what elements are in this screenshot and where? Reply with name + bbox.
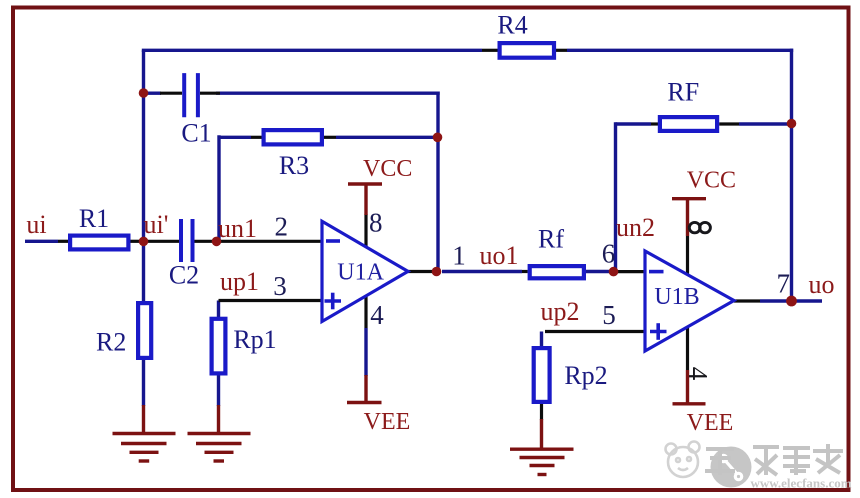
svg-text:7: 7 (777, 269, 791, 299)
svg-text:4: 4 (683, 367, 713, 381)
svg-text:Rf: Rf (538, 225, 564, 254)
svg-text:up1: up1 (220, 267, 259, 296)
svg-text:VEE: VEE (364, 409, 411, 435)
svg-text:uo: uo (809, 270, 835, 299)
svg-text:8: 8 (369, 208, 383, 238)
svg-text:up2: up2 (541, 297, 580, 326)
svg-text:2: 2 (275, 212, 289, 242)
svg-text:VCC: VCC (687, 167, 736, 193)
svg-text:1: 1 (452, 241, 466, 271)
svg-text:R4: R4 (497, 11, 527, 40)
svg-text:U1B: U1B (654, 284, 699, 310)
svg-text:un1: un1 (218, 214, 257, 243)
svg-text:www.elecfans.com: www.elecfans.com (750, 476, 851, 491)
svg-text:3: 3 (273, 271, 287, 301)
svg-text:R1: R1 (79, 204, 109, 233)
svg-text:ui': ui' (144, 210, 169, 239)
svg-text:un2: un2 (616, 213, 655, 242)
svg-text:6: 6 (602, 239, 616, 269)
svg-text:C2: C2 (169, 261, 199, 290)
svg-text:RF: RF (667, 78, 699, 107)
svg-text:5: 5 (602, 300, 616, 330)
svg-text:Rp2: Rp2 (564, 361, 607, 390)
svg-text:R2: R2 (96, 328, 126, 357)
svg-text:U1A: U1A (337, 260, 384, 286)
svg-text:VCC: VCC (363, 156, 412, 182)
svg-text:4: 4 (370, 300, 384, 330)
svg-text:Rp1: Rp1 (233, 325, 276, 354)
svg-text:R3: R3 (279, 151, 309, 180)
svg-text:C1: C1 (181, 119, 211, 148)
svg-text:VEE: VEE (687, 410, 734, 436)
svg-text:uo1: uo1 (480, 241, 519, 270)
svg-text:ui: ui (26, 210, 46, 239)
